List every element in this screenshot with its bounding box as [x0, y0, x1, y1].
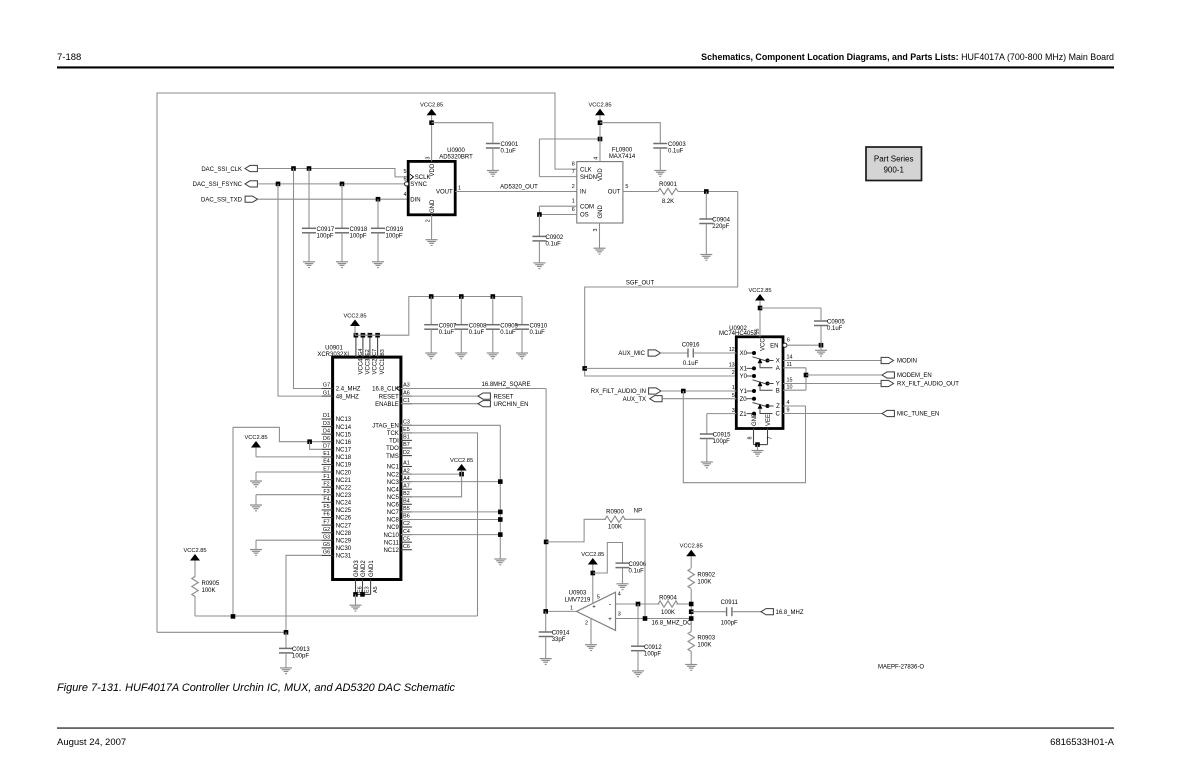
svg-text:G6: G6 [323, 550, 330, 556]
svg-text:IN: IN [580, 190, 586, 196]
svg-text:VCC2.85: VCC2.85 [450, 458, 473, 464]
svg-text:0.1uF: 0.1uF [439, 330, 455, 336]
svg-text:B: B [776, 388, 780, 394]
svg-text:Z: Z [776, 404, 780, 410]
svg-text:0.1uF: 0.1uF [683, 361, 699, 367]
svg-text:F1: F1 [323, 474, 329, 480]
svg-text:A6: A6 [403, 390, 410, 396]
svg-text:D4: D4 [323, 428, 330, 434]
svg-text:33pF: 33pF [552, 637, 566, 643]
svg-text:+: + [608, 617, 612, 623]
svg-text:A: A [776, 366, 780, 372]
svg-text:C0915: C0915 [713, 433, 731, 439]
svg-text:DIN: DIN [410, 197, 420, 203]
svg-text:F4: F4 [323, 497, 329, 503]
svg-text:C0901: C0901 [501, 142, 519, 148]
svg-text:B1: B1 [403, 435, 410, 441]
svg-text:NC8: NC8 [387, 518, 400, 524]
svg-text:C0913: C0913 [292, 647, 310, 653]
svg-text:7-188: 7-188 [57, 52, 81, 63]
svg-text:0.1uF: 0.1uF [827, 326, 843, 332]
svg-text:3: 3 [618, 612, 621, 618]
svg-text:10: 10 [787, 384, 793, 390]
svg-text:NC11: NC11 [384, 540, 400, 546]
svg-text:AD5320_OUT: AD5320_OUT [500, 185, 538, 191]
svg-text:A4: A4 [403, 476, 410, 482]
svg-text:5: 5 [732, 393, 735, 399]
svg-text:VCC3: VCC3 [366, 358, 372, 375]
svg-text:RX_FILT_AUDIO_OUT: RX_FILT_AUDIO_OUT [897, 382, 959, 388]
svg-text:R0902: R0902 [697, 573, 715, 579]
svg-text:VCC4: VCC4 [359, 358, 365, 375]
svg-text:U0903: U0903 [569, 591, 587, 597]
svg-text:NC24: NC24 [336, 501, 352, 507]
svg-text:4: 4 [404, 192, 407, 198]
svg-text:NP: NP [634, 509, 642, 515]
svg-text:ENABLE: ENABLE [375, 402, 399, 408]
svg-text:NC23: NC23 [336, 493, 352, 499]
svg-text:VCC2.85: VCC2.85 [680, 544, 703, 550]
svg-text:C2: C2 [403, 521, 410, 527]
svg-text:OUT: OUT [608, 190, 621, 196]
svg-text:C0912: C0912 [644, 645, 662, 651]
svg-text:C0917: C0917 [317, 227, 335, 233]
svg-text:C0916: C0916 [682, 343, 700, 349]
svg-text:NC29: NC29 [336, 538, 352, 544]
svg-text:B5: B5 [403, 506, 410, 512]
svg-text:1: 1 [572, 199, 575, 205]
svg-text:VOUT: VOUT [436, 190, 453, 196]
svg-text:F3: F3 [323, 489, 329, 495]
svg-text:100pF: 100pF [317, 234, 334, 240]
svg-text:E3: E3 [365, 586, 371, 593]
svg-text:VCC2.85: VCC2.85 [244, 435, 267, 441]
svg-text:GND2: GND2 [361, 560, 367, 577]
svg-text:Part Series: Part Series [874, 155, 914, 164]
svg-text:1: 1 [570, 605, 573, 611]
svg-text:48_MHZ: 48_MHZ [336, 394, 359, 400]
svg-text:G2: G2 [323, 527, 330, 533]
svg-text:NC9: NC9 [387, 525, 400, 531]
svg-text:7: 7 [768, 437, 774, 440]
svg-text:0.1uF: 0.1uF [530, 330, 546, 336]
svg-text:B4: B4 [403, 499, 410, 505]
svg-text:NC19: NC19 [336, 463, 352, 469]
svg-text:NC27: NC27 [336, 523, 352, 529]
svg-text:Y1: Y1 [740, 389, 748, 395]
svg-text:DAC_SSI_CLK: DAC_SSI_CLK [201, 167, 242, 173]
svg-text:NC4: NC4 [387, 487, 400, 493]
svg-text:5: 5 [625, 184, 628, 190]
svg-text:A1: A1 [403, 461, 410, 467]
svg-text:VDD: VDD [430, 163, 436, 176]
svg-text:U0900: U0900 [447, 148, 465, 154]
svg-text:B7: B7 [403, 442, 410, 448]
svg-text:NC21: NC21 [336, 478, 352, 484]
svg-text:GND: GND [752, 412, 758, 426]
svg-text:OS: OS [580, 213, 589, 219]
svg-text:NC18: NC18 [336, 455, 352, 461]
svg-text:C0905: C0905 [827, 320, 845, 326]
svg-text:NC10: NC10 [383, 533, 399, 539]
svg-text:14: 14 [787, 355, 793, 361]
svg-text:NC31: NC31 [336, 554, 352, 560]
svg-text:VCC2.85: VCC2.85 [183, 548, 206, 554]
svg-text:VCC2.85: VCC2.85 [581, 552, 604, 558]
svg-text:VCC2: VCC2 [373, 358, 379, 375]
svg-text:B2: B2 [403, 491, 410, 497]
svg-text:100K: 100K [661, 610, 675, 616]
svg-text:3: 3 [593, 229, 599, 232]
svg-text:B3: B3 [380, 349, 386, 356]
svg-text:0.1uF: 0.1uF [668, 149, 684, 155]
svg-text:D7: D7 [323, 444, 330, 450]
svg-text:August 24, 2007: August 24, 2007 [57, 737, 126, 748]
svg-text:AUX_MIC: AUX_MIC [618, 351, 645, 357]
svg-text:CLK: CLK [580, 167, 592, 173]
svg-text:100pF: 100pF [644, 651, 661, 657]
svg-text:0.1uF: 0.1uF [500, 330, 516, 336]
svg-text:G3: G3 [323, 534, 330, 540]
svg-text:R0903: R0903 [697, 636, 715, 642]
svg-text:NC30: NC30 [336, 546, 352, 552]
svg-text:15: 15 [787, 378, 793, 384]
svg-text:16.8MHZ_SQARE: 16.8MHZ_SQARE [481, 382, 530, 388]
svg-text:A5: A5 [373, 586, 379, 593]
svg-text:TMS: TMS [386, 454, 399, 460]
svg-text:COM: COM [580, 204, 594, 210]
svg-text:MAEPF-27836-O: MAEPF-27836-O [878, 665, 924, 671]
svg-text:NC5: NC5 [387, 495, 400, 501]
svg-text:C6: C6 [403, 544, 410, 550]
svg-text:5: 5 [404, 169, 407, 175]
svg-text:SYNC: SYNC [410, 182, 427, 188]
svg-text:F5: F5 [323, 504, 329, 510]
svg-text:VEE: VEE [766, 414, 772, 426]
svg-text:TDO: TDO [386, 446, 399, 452]
svg-text:EN: EN [770, 343, 778, 349]
svg-text:NC20: NC20 [336, 470, 352, 476]
svg-text:NC22: NC22 [336, 485, 352, 491]
svg-text:G7: G7 [323, 383, 330, 389]
svg-text:C0918: C0918 [350, 227, 368, 233]
svg-text:A2: A2 [403, 468, 410, 474]
svg-text:16: 16 [754, 329, 760, 335]
svg-text:D6: D6 [323, 436, 330, 442]
svg-text:R0905: R0905 [202, 581, 220, 587]
svg-text:11: 11 [787, 362, 793, 368]
svg-text:0.1uF: 0.1uF [469, 330, 485, 336]
svg-text:NC6: NC6 [387, 503, 400, 509]
svg-text:D3: D3 [323, 421, 330, 427]
svg-text:8: 8 [572, 162, 575, 168]
svg-text:NC17: NC17 [336, 448, 352, 454]
svg-text:2: 2 [585, 621, 588, 627]
svg-text:6816533H01-A: 6816533H01-A [1050, 737, 1115, 748]
svg-text:E4: E4 [323, 459, 330, 465]
svg-text:NC1: NC1 [387, 465, 400, 471]
svg-text:4: 4 [787, 400, 790, 406]
svg-text:SCLK: SCLK [415, 175, 431, 181]
svg-text:JTAG_EN: JTAG_EN [372, 424, 399, 430]
svg-text:NC28: NC28 [336, 531, 352, 537]
svg-text:D1: D1 [323, 413, 330, 419]
svg-text:NC2: NC2 [387, 472, 400, 478]
svg-text:GND3: GND3 [354, 560, 360, 577]
svg-text:RESET: RESET [494, 394, 514, 400]
svg-text:0.1uF: 0.1uF [546, 242, 562, 248]
svg-text:NC16: NC16 [336, 440, 352, 446]
svg-text:1: 1 [732, 385, 735, 391]
svg-text:FL0900: FL0900 [612, 147, 633, 153]
svg-text:NC12: NC12 [383, 548, 399, 554]
svg-text:100K: 100K [608, 525, 622, 531]
svg-text:VCC2.85: VCC2.85 [748, 288, 771, 294]
svg-text:13: 13 [729, 363, 735, 369]
svg-text:A7: A7 [403, 483, 410, 489]
svg-text:C0907: C0907 [439, 323, 457, 329]
svg-text:100pF: 100pF [292, 654, 309, 660]
svg-text:C0908: C0908 [469, 323, 487, 329]
svg-text:B6: B6 [403, 514, 410, 520]
svg-text:LMV7219: LMV7219 [565, 598, 591, 604]
svg-text:+: + [592, 604, 596, 610]
svg-text:12: 12 [729, 347, 735, 353]
svg-text:X: X [776, 359, 780, 365]
svg-text:X1: X1 [740, 367, 748, 373]
svg-text:NC13: NC13 [336, 417, 352, 423]
svg-text:C3: C3 [403, 420, 410, 426]
svg-text:100K: 100K [202, 588, 216, 594]
svg-text:100pF: 100pF [386, 234, 403, 240]
svg-text:100pF: 100pF [350, 234, 367, 240]
svg-text:MC74HC4053: MC74HC4053 [719, 331, 758, 337]
svg-text:NC3: NC3 [387, 480, 400, 486]
svg-text:Z0: Z0 [740, 397, 748, 403]
svg-text:MAX7414: MAX7414 [609, 154, 636, 160]
svg-text:8.2K: 8.2K [662, 199, 674, 205]
svg-text:NC26: NC26 [336, 516, 352, 522]
svg-text:R0900: R0900 [606, 510, 624, 516]
svg-text:VCC2.85: VCC2.85 [420, 103, 443, 109]
svg-text:AUX_TX: AUX_TX [623, 397, 646, 403]
svg-text:TCK: TCK [387, 431, 399, 437]
svg-text:NC14: NC14 [336, 425, 352, 431]
svg-text:1: 1 [458, 186, 461, 192]
svg-text:NC7: NC7 [387, 510, 400, 516]
svg-text:VCC1: VCC1 [380, 358, 386, 375]
svg-text:SGF_OUT: SGF_OUT [626, 280, 655, 286]
svg-text:F2: F2 [323, 481, 329, 487]
svg-text:5: 5 [597, 594, 600, 600]
svg-text:C0919: C0919 [386, 227, 404, 233]
svg-text:U0901: U0901 [325, 345, 343, 351]
svg-text:3: 3 [426, 157, 432, 160]
svg-text:C0906: C0906 [629, 562, 647, 568]
svg-text:URCHIN_EN: URCHIN_EN [494, 402, 529, 408]
svg-text:Z1: Z1 [740, 412, 748, 418]
svg-text:6: 6 [787, 338, 790, 344]
svg-text:900-1: 900-1 [883, 166, 904, 175]
svg-text:Schematics, Component Location: Schematics, Component Location Diagrams,… [701, 52, 1114, 62]
svg-text:2: 2 [426, 219, 432, 222]
svg-text:100pF: 100pF [713, 439, 730, 445]
svg-text:MIC_TUNE_EN: MIC_TUNE_EN [897, 412, 939, 418]
svg-text:100pF: 100pF [721, 621, 738, 627]
svg-text:F7: F7 [323, 519, 329, 525]
svg-text:R0904: R0904 [659, 595, 677, 601]
svg-text:100K: 100K [697, 580, 711, 586]
svg-text:C1: C1 [403, 398, 410, 404]
svg-text:C0902: C0902 [546, 235, 564, 241]
svg-text:C4: C4 [403, 529, 410, 535]
svg-text:2: 2 [572, 184, 575, 190]
svg-text:4: 4 [594, 157, 600, 160]
svg-text:G5: G5 [323, 542, 330, 548]
svg-text:C0911: C0911 [721, 600, 739, 606]
svg-text:F6: F6 [323, 512, 329, 518]
svg-text:4: 4 [618, 592, 621, 598]
svg-text:C0914: C0914 [552, 631, 570, 637]
svg-text:MODIN: MODIN [897, 359, 917, 365]
svg-text:VCC: VCC [760, 338, 766, 351]
svg-text:100K: 100K [697, 643, 711, 649]
svg-text:A3: A3 [403, 383, 410, 389]
svg-text:E7: E7 [323, 466, 330, 472]
svg-text:AD5320BRT: AD5320BRT [439, 154, 473, 160]
svg-text:RESET: RESET [379, 394, 399, 400]
svg-text:3: 3 [732, 408, 735, 414]
svg-text:G1: G1 [323, 390, 330, 396]
svg-text:X0: X0 [740, 351, 748, 357]
svg-text:MODEM_EN: MODEM_EN [897, 373, 932, 379]
svg-text:9: 9 [787, 408, 790, 414]
svg-text:VCC2.85: VCC2.85 [588, 103, 611, 109]
svg-text:8: 8 [748, 437, 754, 440]
svg-text:Y: Y [776, 382, 780, 388]
svg-text:DAC_SSI_TXD: DAC_SSI_TXD [201, 198, 243, 204]
svg-text:0.1uF: 0.1uF [501, 149, 517, 155]
svg-text:GND: GND [598, 205, 604, 219]
svg-text:2: 2 [732, 370, 735, 376]
svg-text:C5: C5 [403, 536, 410, 542]
svg-text:D2: D2 [403, 450, 410, 456]
svg-text:C0910: C0910 [530, 323, 548, 329]
svg-text:16.8_MHZ: 16.8_MHZ [776, 610, 804, 616]
svg-text:NC25: NC25 [336, 508, 352, 514]
svg-text:TDI: TDI [389, 439, 399, 445]
svg-text:7: 7 [572, 169, 575, 175]
svg-text:C0903: C0903 [668, 142, 686, 148]
svg-text:E1: E1 [323, 451, 330, 457]
svg-text:NC15: NC15 [336, 432, 352, 438]
svg-text:VCC2.85: VCC2.85 [343, 313, 366, 319]
svg-text:GND1: GND1 [369, 560, 375, 577]
svg-text:SHDN: SHDN [580, 175, 597, 181]
svg-text:Y0: Y0 [740, 374, 748, 380]
svg-text:0.1uF: 0.1uF [629, 568, 645, 574]
svg-text:Figure 7-131. HUF4017A Control: Figure 7-131. HUF4017A Controller Urchin… [57, 682, 455, 694]
svg-text:2.4_MHZ: 2.4_MHZ [336, 387, 361, 393]
svg-text:220pF: 220pF [712, 224, 729, 230]
svg-text:VDD: VDD [598, 168, 604, 181]
svg-text:16.8_CLK: 16.8_CLK [372, 387, 399, 393]
svg-text:RX_FILT_AUDIO_IN: RX_FILT_AUDIO_IN [591, 389, 646, 395]
svg-text:DAC_SSI_FSYNC: DAC_SSI_FSYNC [193, 182, 243, 188]
svg-text:XCR3032XL: XCR3032XL [317, 352, 351, 358]
svg-text:GND: GND [430, 199, 436, 213]
svg-text:16.8_MHZ_DC: 16.8_MHZ_DC [652, 621, 693, 627]
svg-text:C0904: C0904 [712, 218, 730, 224]
svg-text:C: C [775, 412, 780, 418]
svg-text:R0901: R0901 [659, 182, 677, 188]
svg-text:E5: E5 [403, 427, 410, 433]
svg-text:6: 6 [572, 207, 575, 213]
